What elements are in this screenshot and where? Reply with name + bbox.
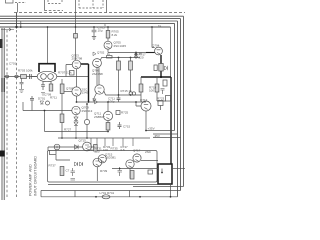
- wire pair emitter drop: [96, 167, 98, 181]
- svg-text:Q702: Q702: [97, 51, 105, 55]
- diode above Q706: [93, 52, 96, 56]
- svg-text:2SA798: 2SA798: [92, 72, 103, 76]
- Q713 internals: [144, 104, 148, 109]
- R715 leads: [130, 58, 132, 93]
- svg-text:C7: C7: [66, 169, 70, 173]
- connector pin at x7: [5, 75, 9, 77]
- Q706 emitter drop: [96, 67, 98, 85]
- svg-text:R723: R723: [157, 97, 165, 101]
- thick link over Q701: [39, 64, 55, 72]
- transistor Q713: [141, 101, 151, 111]
- dark border segment left: [2, 78, 4, 92]
- transistor Q707: [95, 85, 104, 94]
- svg-text:2SD313: 2SD313: [82, 109, 93, 113]
- junction x44: [44, 110, 46, 112]
- thermistor circle: [84, 119, 89, 124]
- resistor under Q711: [106, 123, 110, 131]
- junction x16.5 bus: [15, 26, 17, 28]
- junction y130: [145, 130, 147, 132]
- svg-text:Q713: Q713: [140, 98, 148, 102]
- junction in box: [119, 168, 121, 170]
- resistor right of Q715a: [94, 145, 98, 152]
- Q705b emitter: [76, 96, 78, 102]
- thin tap right of thick box: [172, 168, 185, 170]
- dashed box fragment top middle: [79, 0, 103, 8]
- svg-text:Q704: Q704: [152, 44, 160, 48]
- junction x88 y102: [88, 101, 90, 103]
- capacitor on x75.5 drop: [74, 34, 78, 39]
- resistor R713: [117, 61, 121, 70]
- wire right transistor drop: [129, 168, 131, 178]
- svg-text:+35V: +35V: [148, 127, 155, 131]
- svg-text:Q717: Q717: [133, 149, 141, 153]
- R713 leads: [118, 58, 120, 96]
- cap component circle: [54, 144, 60, 150]
- svg-text:100p: 100p: [108, 100, 115, 104]
- Q713 base wire: [136, 102, 141, 106]
- vertical x44.5 down: [44, 111, 46, 132]
- wire to ellipse: [31, 76, 37, 78]
- connector arrows below bus left: [1, 28, 14, 31]
- label box on top edge: [50, 151, 57, 155]
- long wire y102: [77, 101, 147, 103]
- resistor R705: [107, 27, 109, 31]
- dashed stub top-left: [15, 2, 26, 4]
- svg-text:0.5: 0.5: [121, 148, 126, 152]
- small box above right of Q713: [158, 101, 163, 106]
- transistor Q704: [155, 47, 163, 55]
- bottom wire y190.5: [41, 190, 181, 192]
- svg-text:POWER AMP AND: POWER AMP AND: [29, 164, 33, 196]
- Q711 base from wire: [107, 102, 109, 111]
- bus wire 3: [0, 21, 178, 197]
- small box right of Q711: [116, 111, 120, 115]
- junction y95 x118: [118, 94, 120, 96]
- Q704 internals: [157, 50, 161, 54]
- output transistor right: [126, 160, 134, 168]
- resistor R715: [129, 61, 133, 70]
- ground under Q701: [41, 93, 45, 96]
- svg-text:Q705: Q705: [66, 87, 74, 91]
- input wire y76.5: [4, 76, 37, 78]
- junction x20.8 bus: [20, 26, 22, 28]
- rail y52.5: [108, 52, 146, 54]
- svg-text:R703 100k: R703 100k: [18, 69, 33, 73]
- resistor in box right: [130, 171, 134, 180]
- svg-text:-35V: -35V: [154, 134, 160, 138]
- Q705b base wire: [64, 91, 72, 93]
- rail thick part: [146, 52, 155, 54]
- resistor on trace: [159, 64, 163, 72]
- svg-text:220: 220: [95, 150, 100, 154]
- svg-text:1k: 1k: [107, 52, 111, 56]
- transistor Q705b: [72, 87, 81, 96]
- top connector box fragment left: [6, 0, 14, 3]
- corner x41: [40, 191, 42, 197]
- Q713 collector drop: [145, 111, 147, 131]
- junction x94 bus: [93, 26, 95, 28]
- emitter resistor drops above output bank: [91, 138, 133, 146]
- supply wire y134: [153, 133, 178, 135]
- wire vertical top x75.5: [75, 0, 77, 13]
- resistor R719: [140, 77, 142, 84]
- vertical x48: [47, 147, 49, 151]
- Q704 base feed from bus: [152, 27, 155, 48]
- output board box: [48, 151, 158, 183]
- small part on rail: [107, 56, 113, 58]
- left board border line 1: [1, 28, 3, 200]
- wire vertical x16.5 from dashed line through bus: [16, 13, 18, 29]
- left board border line 2: [3, 28, 5, 200]
- inner wire in box: [56, 155, 70, 160]
- Q703 emitter lead: [76, 69, 78, 87]
- wire y110.5: [23, 110, 72, 112]
- svg-text:220: 220: [88, 148, 93, 152]
- svg-text:INPUT CIRCUIT BOARD: INPUT CIRCUIT BOARD: [34, 156, 38, 196]
- wire vertical top x106.5: [106, 0, 108, 13]
- svg-text:100: 100: [149, 89, 154, 93]
- transistor Q703: [72, 60, 81, 69]
- svg-text:Q715: Q715: [79, 139, 87, 143]
- junction bottom x140: [139, 196, 141, 198]
- svg-text:R725: R725: [121, 111, 129, 115]
- junction rail x130: [130, 57, 132, 59]
- wire y131.5: [45, 131, 109, 133]
- svg-text:R735: R735: [111, 147, 119, 151]
- Q705 internals: [106, 44, 110, 48]
- wire y138: [58, 137, 150, 139]
- diodes in box left: [75, 162, 83, 166]
- svg-text:R739: R739: [100, 169, 108, 173]
- resistor box right column: [163, 80, 167, 86]
- dashed boundary vertical x16.5: [16, 30, 18, 197]
- svg-text:R711: R711: [50, 96, 57, 100]
- small box under Q703: [70, 71, 75, 76]
- dashed frame segment y10.5: [45, 10, 64, 12]
- wire bus drop x47.5: [47, 27, 49, 64]
- Q701 internal circle b: [48, 74, 54, 80]
- svg-text:2SC1345: 2SC1345: [114, 44, 127, 48]
- bus wire 2: [0, 19, 181, 191]
- bus wire 4: [0, 23, 175, 130]
- connector blob left edge: [0, 39, 3, 48]
- wire vertical top x44: [44, 0, 46, 11]
- D701 cluster small marks: [40, 101, 44, 104]
- wire in box: [112, 168, 150, 170]
- Q701 internal circle a: [41, 74, 47, 80]
- dashed box fragment top middle-left: [48, 0, 62, 4]
- junction x87 y104: [86, 103, 88, 105]
- resistor in box: [60, 167, 64, 176]
- junction bottom: [170, 196, 172, 198]
- tick x75: [74, 191, 76, 197]
- svg-text:220: 220: [139, 56, 144, 60]
- resistor R711 vertical: [60, 84, 64, 94]
- bottom wire y186.5: [133, 186, 184, 188]
- svg-text:1k: 1k: [158, 24, 162, 28]
- capacitor C715: [118, 122, 122, 129]
- small rect right: [148, 170, 153, 174]
- svg-text:R715 1k: R715 1k: [121, 89, 133, 93]
- Q706 internals: [95, 62, 99, 66]
- Q707 diode to wire: [93, 93, 97, 101]
- dashed boundary vertical x7: [6, 30, 8, 197]
- power arrow up right: [135, 52, 138, 58]
- wire vertical x20.8: [20, 21, 22, 28]
- resistor R721: [156, 77, 158, 84]
- transistor Q709: [72, 106, 80, 114]
- wire y147 row: [48, 146, 83, 148]
- wire vertical into dashed frame: [17, 3, 19, 13]
- junction x108 bus: [107, 26, 109, 28]
- svg-text:B1: B1: [139, 52, 143, 56]
- small rect near x171: [166, 96, 171, 102]
- thick vertical trace x171: [170, 77, 172, 164]
- Q706 collector rail y57.5: [101, 58, 141, 61]
- svg-text:L701 R741: L701 R741: [100, 191, 115, 195]
- transistor Q711: [103, 111, 112, 120]
- svg-text:10μ: 10μ: [98, 29, 103, 33]
- supply wire y130.5: [146, 130, 175, 132]
- inductor L701 on bottom wire: [102, 195, 110, 199]
- tick x170.5: [170, 184, 172, 197]
- Q707 internals: [98, 88, 102, 93]
- transistor Q705: [104, 41, 112, 49]
- small box left of trace: [154, 65, 157, 71]
- resistor left of diodes: [60, 114, 64, 123]
- junction diode rail: [135, 52, 137, 54]
- ground branch under input: [19, 79, 24, 93]
- thick corner terminal left: [0, 151, 5, 157]
- wire to output node: [141, 160, 158, 162]
- Q703 base lead: [66, 65, 72, 77]
- capacitor marks right column: [161, 89, 165, 95]
- junction x152 bus: [151, 26, 153, 28]
- R711 leads: [61, 79, 63, 111]
- transistor Q706: [93, 59, 102, 68]
- svg-text:D701: D701: [38, 97, 46, 101]
- svg-text:R707 2.2k: R707 2.2k: [58, 71, 72, 75]
- junction bottom x96: [95, 196, 97, 198]
- svg-text:R727: R727: [64, 128, 72, 132]
- vertical board name text: [29, 156, 38, 196]
- svg-text:C715: C715: [123, 125, 131, 129]
- thick rail y77: [141, 76, 171, 78]
- transistor Q717: [133, 154, 141, 162]
- Q709 emitter chain diodes: [74, 115, 78, 138]
- resistor R701: [21, 75, 27, 79]
- bus wire 1: [0, 16, 184, 186]
- wire bus drop x75.5: [75, 13, 77, 60]
- junction y77 x161: [160, 76, 162, 78]
- connector pin at x16.5: [15, 75, 19, 77]
- Q707 base link: [98, 67, 100, 85]
- tick x129.5: [129, 191, 131, 197]
- vertical x23: [22, 102, 24, 111]
- Q705b internals: [75, 90, 79, 95]
- diode on row: [75, 145, 79, 149]
- thick output node box: [158, 164, 172, 184]
- svg-text:C701: C701: [9, 62, 17, 66]
- tiny text labels: [9, 23, 165, 195]
- Q703 internals: [75, 63, 79, 68]
- svg-text:100: 100: [103, 148, 108, 152]
- bottom wire y196.8: [41, 196, 178, 198]
- svg-text:R737: R737: [49, 164, 57, 168]
- junction q713: [135, 101, 137, 103]
- component pair oval: [129, 92, 132, 95]
- dual transistor Q701 package: [37, 71, 57, 81]
- capacitor C701: [30, 74, 32, 79]
- Q701 output wire: [57, 76, 89, 78]
- diode on rail: [134, 53, 137, 60]
- Q701 emitter drop a: [42, 82, 44, 85]
- diode left on wire y102: [93, 100, 98, 104]
- svg-text:1345: 1345: [82, 91, 89, 95]
- dashed board boundary line: [14, 12, 185, 14]
- caps in box: [71, 168, 76, 176]
- bus wire 5: [0, 26, 171, 28]
- vertical x32 with cap: [30, 96, 34, 111]
- cap C719: [118, 167, 123, 176]
- junction x76 y102: [76, 101, 78, 103]
- Q711 internals: [106, 115, 110, 120]
- output transistor pair: [93, 158, 102, 167]
- resistor drop b: [50, 82, 52, 85]
- svg-text:2SA798: 2SA798: [72, 57, 83, 61]
- svg-text:2SD: 2SD: [145, 150, 152, 154]
- svg-text:2SB507: 2SB507: [94, 115, 105, 119]
- component R709: [49, 84, 53, 91]
- junction y95 x130: [130, 94, 132, 96]
- tap into thick box: [150, 169, 162, 173]
- capacitor C711: [117, 95, 121, 102]
- svg-text:8.2k: 8.2k: [112, 33, 118, 37]
- diode marks right of trace: [165, 66, 168, 70]
- svg-text:2SD381: 2SD381: [105, 156, 116, 160]
- wire below box: [48, 184, 172, 186]
- junction dots y138: [61, 137, 63, 139]
- Q707 collector rail y95: [104, 92, 141, 96]
- thick collector trace Q703: [81, 64, 89, 102]
- supply wire y137.5: [153, 137, 181, 139]
- junction q711 base: [107, 101, 109, 103]
- capacitor under Q701: [41, 85, 45, 90]
- junction end: [107, 131, 109, 133]
- Q709 internals: [74, 109, 78, 114]
- bus wire 5 right vertical: [170, 27, 172, 77]
- transistor Q715a: [83, 142, 92, 151]
- capacitor C705 branch: [92, 27, 97, 40]
- Q705 emitter to rail: [107, 49, 109, 52]
- thick emitter trace Q704: [160, 55, 162, 77]
- junction rail x118: [118, 57, 120, 59]
